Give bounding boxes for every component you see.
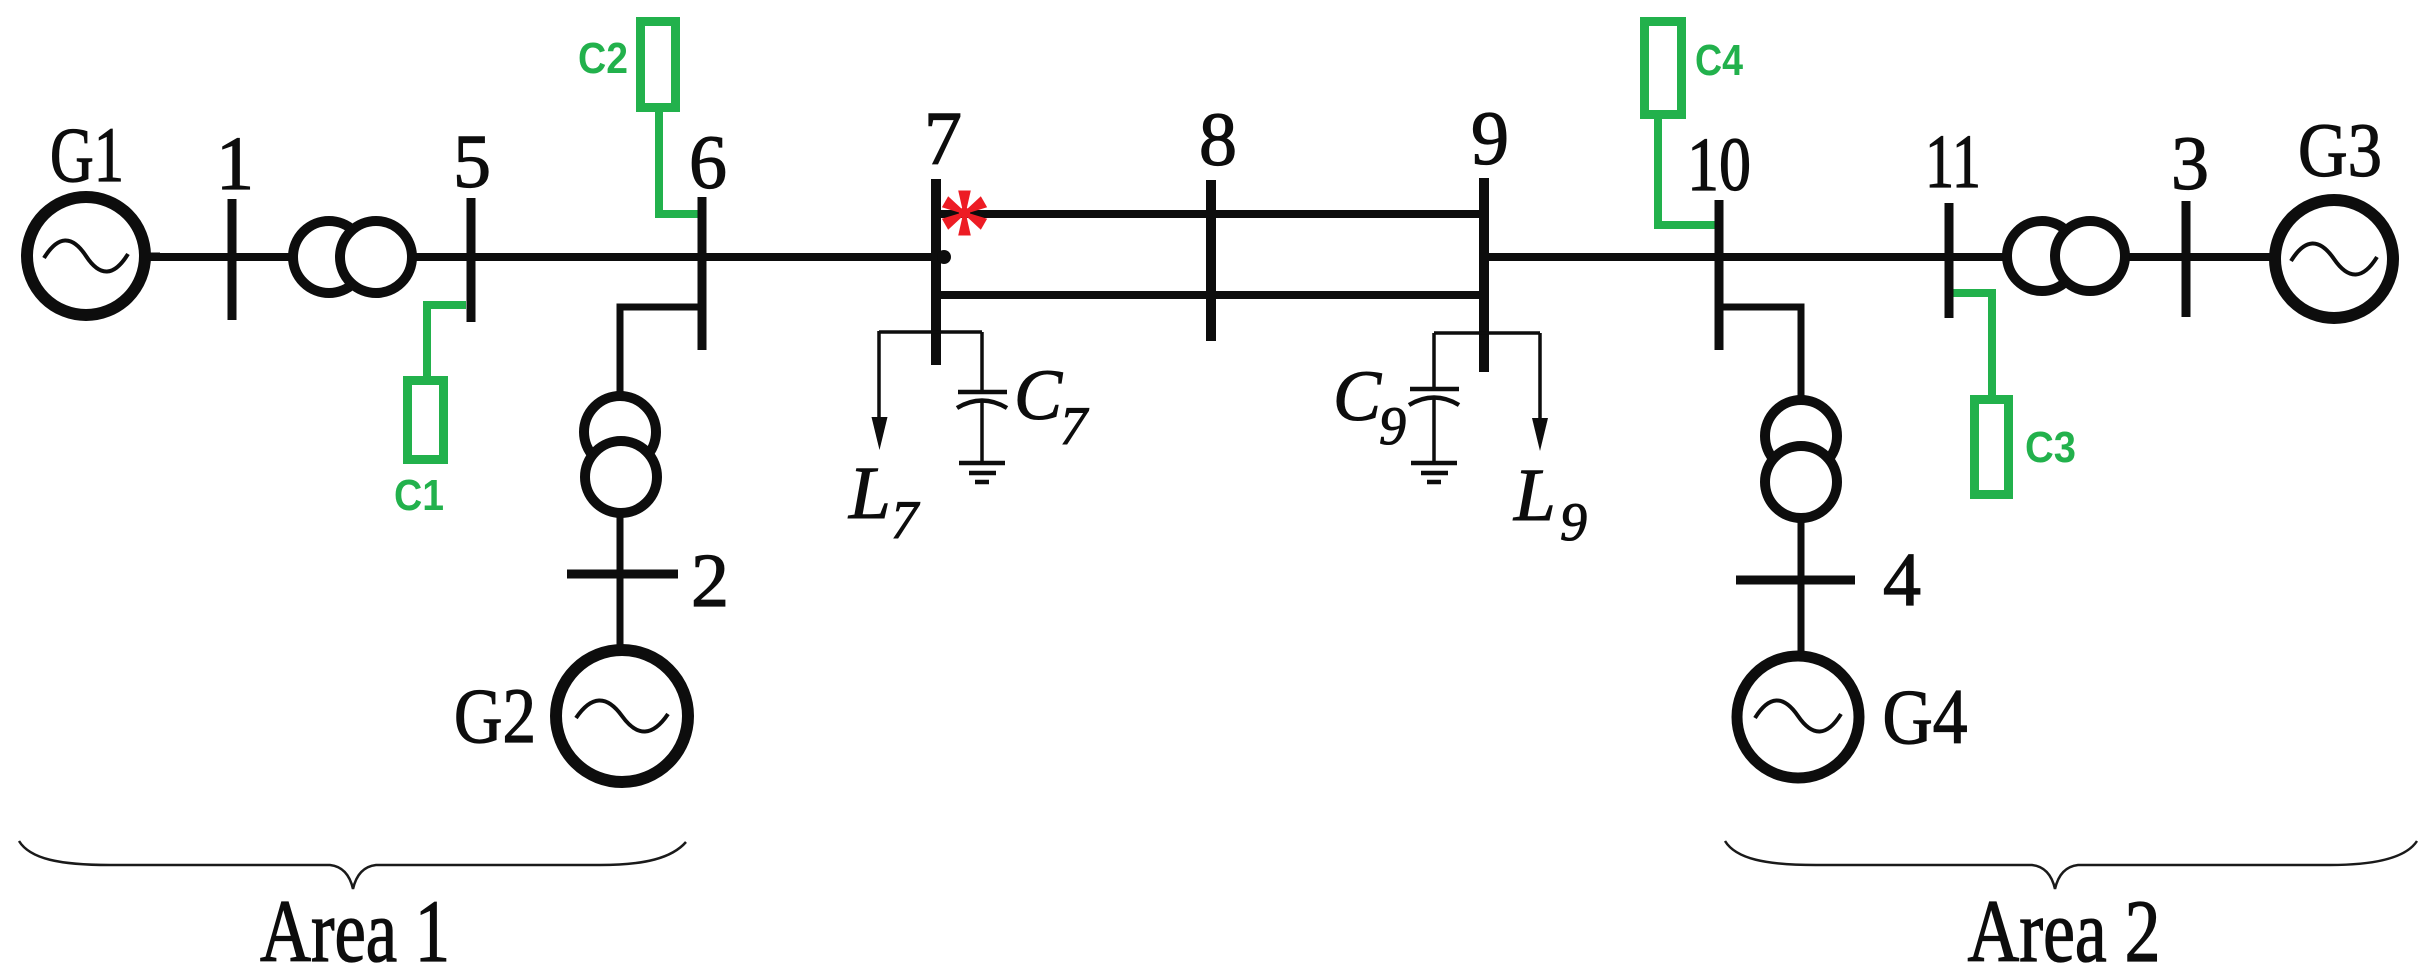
svg-text:G2: G2 [454, 672, 536, 759]
svg-text:7: 7 [924, 97, 962, 181]
svg-text:C3: C3 [2025, 423, 2076, 472]
svg-text:9: 9 [1471, 97, 1509, 181]
svg-text:L: L [848, 452, 891, 535]
svg-text:G3: G3 [2298, 109, 2382, 193]
svg-text:6: 6 [689, 121, 727, 205]
svg-text:5: 5 [453, 120, 491, 204]
svg-text:Area 2: Area 2 [1968, 883, 2161, 977]
svg-text:4: 4 [1883, 538, 1921, 622]
svg-text:C4: C4 [1695, 36, 1743, 85]
svg-text:9: 9 [1379, 396, 1406, 456]
svg-text:G4: G4 [1883, 673, 1968, 760]
svg-text:1: 1 [216, 122, 254, 206]
svg-text:8: 8 [1199, 98, 1237, 182]
svg-text:7: 7 [891, 490, 920, 550]
svg-text:C1: C1 [394, 471, 444, 520]
svg-text:7: 7 [1060, 396, 1089, 456]
svg-text:G1: G1 [50, 111, 124, 198]
svg-text:L: L [1513, 454, 1556, 537]
svg-text:Area 1: Area 1 [260, 883, 450, 977]
svg-text:3: 3 [2171, 122, 2209, 206]
svg-text:9: 9 [1560, 492, 1587, 552]
svg-text:10: 10 [1687, 123, 1751, 207]
svg-text:C: C [1333, 356, 1382, 436]
svg-text:C: C [1014, 355, 1063, 435]
svg-text:11: 11 [1925, 120, 1981, 204]
svg-text:2: 2 [691, 539, 729, 623]
svg-text:C2: C2 [578, 34, 628, 83]
